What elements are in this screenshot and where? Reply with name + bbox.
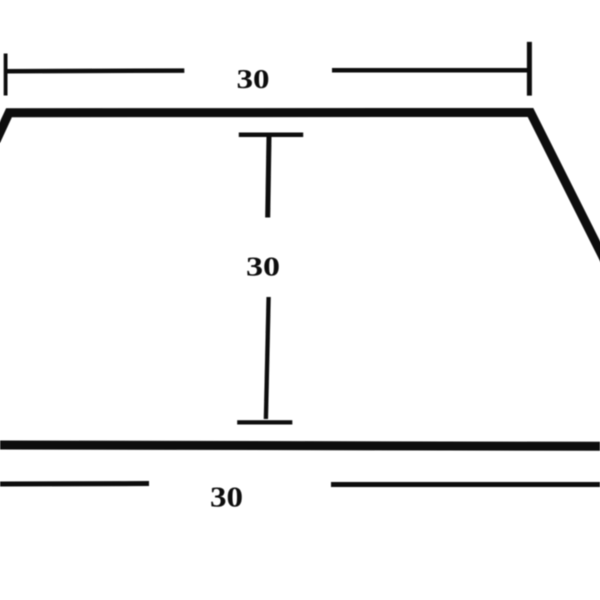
wire: top dimension right end tick bbox=[527, 42, 532, 96]
wire: top dimension left end tick bbox=[4, 54, 8, 96]
svg-text:30: 30 bbox=[210, 483, 243, 514]
trapezoid top edge and slanted sides bbox=[0, 113, 600, 264]
trapezoid bottom edge bbox=[0, 445, 600, 446]
wire: height dimension upper vertical segment bbox=[268, 136, 269, 218]
wire: height dimension bottom tick bbox=[237, 420, 292, 424]
svg-text:30: 30 bbox=[246, 251, 280, 281]
wire: top dimension right horizontal segment bbox=[332, 68, 529, 73]
wire: height dimension lower vertical segment bbox=[266, 297, 269, 419]
wire: bottom dimension left horizontal segment bbox=[0, 481, 149, 487]
wire: height dimension top tick bbox=[239, 132, 303, 137]
wire: top dimension left horizontal segment bbox=[5, 68, 184, 73]
wire: bottom dimension right horizontal segment bbox=[331, 482, 600, 487]
svg-text:30: 30 bbox=[237, 64, 270, 94]
